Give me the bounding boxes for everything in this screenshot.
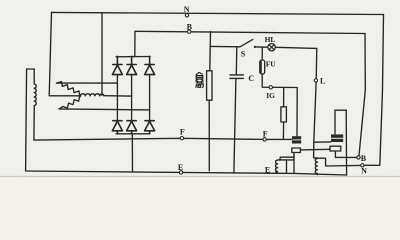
svg-text:F: F xyxy=(180,127,185,136)
svg-text:S: S xyxy=(241,50,246,59)
svg-text:L: L xyxy=(320,76,325,85)
svg-text:N: N xyxy=(184,5,190,14)
svg-text:F: F xyxy=(263,129,268,138)
svg-text:E: E xyxy=(178,163,183,172)
svg-text:HL: HL xyxy=(265,35,276,44)
svg-text:C: C xyxy=(248,74,254,83)
svg-text:IG: IG xyxy=(266,91,275,100)
svg-text:FU: FU xyxy=(266,60,277,69)
svg-text:B: B xyxy=(187,22,193,31)
svg-text:N: N xyxy=(361,167,367,176)
svg-text:B: B xyxy=(361,154,367,163)
svg-text:E: E xyxy=(265,165,270,174)
